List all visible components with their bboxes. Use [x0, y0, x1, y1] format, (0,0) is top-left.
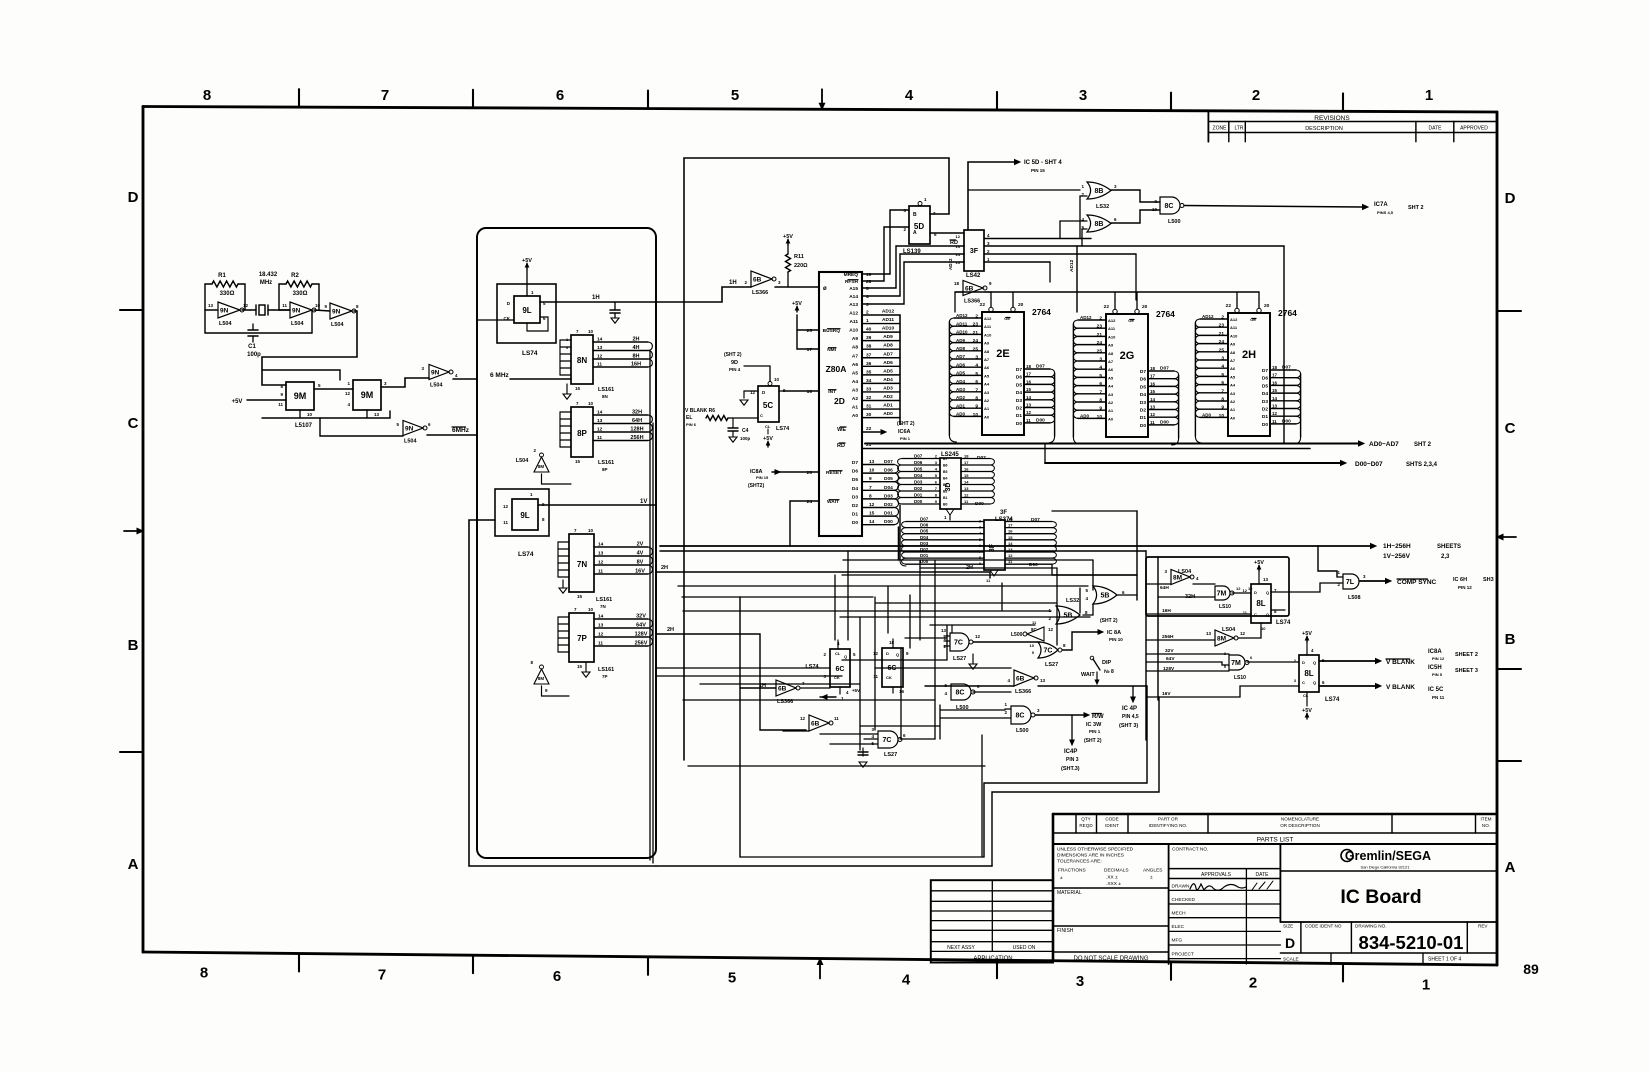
- svg-text:D6: D6: [1262, 376, 1268, 382]
- svg-text:IC 5C: IC 5C: [1428, 687, 1444, 693]
- svg-text:LS27: LS27: [953, 656, 966, 662]
- svg-text:PINS 4,5: PINS 4,5: [1377, 210, 1394, 215]
- svg-text:D5: D5: [1140, 384, 1146, 390]
- svg-text:A11: A11: [849, 319, 858, 325]
- svg-text:2764: 2764: [1278, 308, 1297, 318]
- svg-text:7N: 7N: [577, 560, 587, 569]
- svg-text:6MHz: 6MHz: [452, 427, 470, 434]
- svg-text:DRAWN: DRAWN: [1172, 884, 1190, 890]
- svg-text:16: 16: [1150, 381, 1156, 386]
- svg-text:A8: A8: [984, 349, 990, 354]
- svg-text:10: 10: [1261, 626, 1266, 631]
- svg-text:15: 15: [1026, 387, 1032, 392]
- svg-text:A6: A6: [1230, 366, 1236, 371]
- svg-text:L500: L500: [1011, 632, 1023, 638]
- svg-text:LS161: LS161: [596, 597, 612, 603]
- svg-text:256H: 256H: [1162, 634, 1174, 640]
- svg-text:NOMENCLATURE: NOMENCLATURE: [1281, 817, 1319, 822]
- svg-text:15: 15: [1008, 535, 1013, 540]
- svg-text:A5: A5: [984, 373, 990, 378]
- svg-text:14: 14: [598, 614, 604, 620]
- svg-text:13: 13: [598, 623, 604, 629]
- svg-text:AD12: AD12: [1080, 315, 1092, 320]
- svg-text:128H: 128H: [630, 427, 643, 433]
- svg-text:L500: L500: [1168, 219, 1181, 225]
- svg-text:D2: D2: [1016, 406, 1022, 412]
- svg-text:A1: A1: [1108, 408, 1114, 413]
- svg-text:D: D: [1302, 660, 1305, 665]
- svg-text:24: 24: [1219, 339, 1225, 345]
- svg-text:15: 15: [575, 386, 581, 391]
- svg-text:2764: 2764: [1156, 309, 1175, 319]
- svg-text:D02: D02: [914, 486, 923, 491]
- svg-text:B: B: [1505, 631, 1516, 648]
- svg-text:C: C: [760, 413, 763, 418]
- svg-text:IC 4P: IC 4P: [1122, 706, 1137, 712]
- svg-text:14: 14: [1272, 396, 1278, 401]
- svg-text:C: C: [1505, 420, 1516, 437]
- svg-text:D07: D07: [1031, 517, 1040, 523]
- svg-text:B6: B6: [943, 464, 948, 468]
- svg-text:LS27: LS27: [1045, 662, 1058, 668]
- svg-text:LS27: LS27: [884, 752, 897, 758]
- svg-text:B4: B4: [943, 477, 948, 481]
- svg-text:PIN 4: PIN 4: [729, 367, 741, 372]
- svg-text:1V~256V: 1V~256V: [1383, 553, 1411, 560]
- svg-text:15: 15: [1272, 388, 1278, 393]
- svg-text:8M: 8M: [1217, 635, 1226, 642]
- svg-text:6: 6: [975, 379, 978, 385]
- svg-text:9L: 9L: [520, 511, 529, 520]
- svg-text:5C: 5C: [763, 401, 773, 410]
- svg-text:A9: A9: [1230, 342, 1236, 347]
- svg-text:13: 13: [597, 345, 603, 351]
- svg-text:D03: D03: [914, 480, 923, 485]
- svg-text:D0: D0: [1262, 422, 1268, 428]
- svg-text:13: 13: [1026, 403, 1032, 408]
- svg-text:17: 17: [807, 347, 813, 353]
- svg-text:A1: A1: [852, 405, 858, 411]
- svg-text:Q: Q: [896, 652, 899, 657]
- svg-text:3: 3: [1076, 973, 1084, 990]
- svg-text:A3: A3: [852, 387, 858, 393]
- svg-text:13: 13: [597, 418, 603, 424]
- svg-text:AD4: AD4: [956, 379, 965, 384]
- svg-text:SHEETS: SHEETS: [1437, 544, 1461, 550]
- svg-text:13: 13: [1263, 577, 1269, 582]
- svg-text:13: 13: [1150, 405, 1156, 410]
- svg-text:18: 18: [1272, 365, 1278, 370]
- svg-text:2V: 2V: [637, 542, 644, 548]
- svg-text:CODE: CODE: [1105, 817, 1118, 822]
- svg-text:D00: D00: [914, 499, 923, 504]
- svg-text:AD11: AD11: [882, 317, 894, 323]
- svg-text:D00: D00: [1036, 417, 1045, 423]
- svg-text:834-5210-01: 834-5210-01: [1359, 932, 1464, 953]
- svg-text:AD0~AD7: AD0~AD7: [1369, 441, 1399, 448]
- svg-text:LS366: LS366: [964, 299, 980, 305]
- svg-text:D00: D00: [1029, 562, 1038, 568]
- svg-text:D07: D07: [977, 455, 986, 461]
- svg-text:LS04: LS04: [1178, 569, 1192, 575]
- svg-text:22: 22: [1104, 304, 1110, 310]
- svg-text:A5: A5: [1108, 375, 1114, 380]
- svg-text:1: 1: [1422, 976, 1430, 993]
- svg-text:16: 16: [1272, 380, 1278, 385]
- svg-text:6: 6: [553, 968, 561, 985]
- svg-text:3: 3: [979, 526, 981, 530]
- svg-text:21: 21: [1097, 332, 1103, 338]
- svg-text:9N: 9N: [431, 369, 440, 376]
- svg-text:5: 5: [866, 286, 869, 292]
- svg-text:PIN 12: PIN 12: [1458, 585, 1472, 590]
- svg-text:17: 17: [1026, 372, 1032, 377]
- svg-text:A8: A8: [1108, 351, 1114, 356]
- svg-text:WAIT: WAIT: [1081, 672, 1095, 678]
- svg-text:13: 13: [1040, 678, 1046, 683]
- svg-text:32V: 32V: [1165, 648, 1174, 654]
- svg-text:L500: L500: [1016, 728, 1029, 734]
- svg-text:12: 12: [873, 651, 879, 656]
- svg-text:5B: 5B: [1101, 593, 1110, 600]
- svg-text:LS161: LS161: [598, 667, 614, 673]
- svg-text:8: 8: [1099, 398, 1102, 404]
- svg-text:12: 12: [964, 493, 969, 498]
- svg-text:(SHT 2): (SHT 2): [1084, 738, 1102, 744]
- svg-text:RD: RD: [837, 443, 845, 449]
- svg-text:12: 12: [597, 427, 603, 433]
- svg-text:20: 20: [1018, 302, 1024, 308]
- svg-text:A0: A0: [852, 413, 858, 419]
- svg-text:9M: 9M: [294, 391, 307, 401]
- svg-text:PIN 15: PIN 15: [756, 475, 769, 480]
- svg-text:1H: 1H: [592, 295, 600, 301]
- svg-text:5: 5: [975, 371, 978, 377]
- svg-text:11: 11: [282, 303, 287, 308]
- svg-text:San Diego California 92121: San Diego California 92121: [1361, 865, 1411, 870]
- svg-text:IDENTIFYING NO.: IDENTIFYING NO.: [1149, 823, 1188, 828]
- svg-text:C: C: [1302, 680, 1305, 685]
- svg-text:Q: Q: [1313, 660, 1316, 665]
- svg-text:9: 9: [1099, 406, 1102, 412]
- svg-text:18: 18: [1026, 364, 1032, 369]
- svg-text:28: 28: [866, 279, 872, 285]
- svg-text:D4: D4: [1262, 391, 1268, 397]
- svg-text:2: 2: [1252, 87, 1260, 104]
- svg-text:PIN 5: PIN 5: [1432, 672, 1443, 677]
- svg-text:10: 10: [973, 412, 979, 418]
- svg-text:18: 18: [954, 281, 960, 286]
- svg-text:V BLANK: V BLANK: [1386, 659, 1415, 666]
- svg-text:220Ω: 220Ω: [794, 263, 808, 269]
- svg-text:11: 11: [1150, 420, 1155, 425]
- svg-text:AD2: AD2: [956, 395, 965, 400]
- svg-text:A6: A6: [852, 362, 858, 368]
- svg-text:.XXX ±: .XXX ±: [1106, 881, 1121, 887]
- svg-text:PIN 3: PIN 3: [1066, 757, 1079, 763]
- svg-text:OE: OE: [1250, 317, 1256, 322]
- svg-text:REQD: REQD: [1079, 823, 1093, 828]
- svg-text:23: 23: [1219, 323, 1225, 329]
- svg-text:PN 11: PN 11: [1432, 695, 1445, 700]
- svg-text:ELEC: ELEC: [1172, 924, 1185, 930]
- svg-text:2: 2: [975, 314, 978, 320]
- svg-text:4: 4: [975, 363, 978, 369]
- svg-text:SIZE: SIZE: [1283, 924, 1293, 929]
- svg-text:16H: 16H: [1162, 608, 1171, 614]
- svg-text:AD5: AD5: [883, 368, 893, 374]
- svg-text:LS42: LS42: [966, 273, 981, 279]
- svg-text:89: 89: [1523, 961, 1539, 977]
- svg-text:L508: L508: [1348, 595, 1361, 601]
- svg-text:LS10: LS10: [1234, 675, 1246, 681]
- svg-text:11: 11: [1026, 418, 1031, 423]
- svg-text:A4: A4: [984, 382, 990, 387]
- svg-text:21: 21: [1219, 331, 1225, 337]
- svg-text:25: 25: [973, 346, 979, 352]
- svg-text:13: 13: [941, 628, 947, 633]
- svg-text:C4: C4: [742, 428, 749, 434]
- svg-text:ø: ø: [823, 286, 827, 292]
- svg-text:SHEET 1 OF 4: SHEET 1 OF 4: [1428, 957, 1461, 963]
- svg-text:10: 10: [588, 607, 594, 612]
- svg-text:LS32: LS32: [1066, 598, 1079, 604]
- svg-text:(SHT 2): (SHT 2): [1100, 618, 1118, 624]
- svg-text:A11: A11: [1108, 326, 1116, 331]
- svg-text:NEXT ASSY: NEXT ASSY: [947, 945, 975, 951]
- svg-text:A2: A2: [1230, 399, 1236, 404]
- svg-text:9N: 9N: [220, 307, 229, 314]
- svg-text:A2: A2: [1108, 400, 1114, 405]
- svg-text:2: 2: [979, 520, 981, 524]
- svg-text:18: 18: [1008, 517, 1013, 522]
- svg-text:D0: D0: [1016, 421, 1022, 427]
- svg-text:Q: Q: [844, 654, 847, 659]
- svg-text:1V: 1V: [640, 499, 647, 505]
- svg-text:A11: A11: [984, 324, 992, 329]
- svg-text:A8: A8: [1230, 350, 1236, 355]
- svg-text:DIP: DIP: [1102, 660, 1112, 666]
- svg-text:R11: R11: [794, 254, 804, 260]
- svg-text:IC 5D - SHT 4: IC 5D - SHT 4: [1024, 160, 1062, 166]
- svg-text:6B: 6B: [778, 685, 787, 692]
- svg-text:PROJECT: PROJECT: [1172, 952, 1194, 958]
- svg-text:AD0: AD0: [1080, 414, 1089, 419]
- svg-text:CK: CK: [886, 675, 892, 680]
- svg-text:10: 10: [588, 528, 594, 533]
- svg-text:14: 14: [964, 480, 969, 485]
- svg-text:MATERIAL: MATERIAL: [1057, 890, 1082, 896]
- svg-text:PART OR: PART OR: [1158, 817, 1179, 822]
- svg-text:14: 14: [598, 542, 604, 548]
- svg-text:8M: 8M: [538, 676, 545, 681]
- svg-text:64V: 64V: [636, 623, 646, 629]
- svg-text:ZONE: ZONE: [1213, 126, 1228, 132]
- svg-text:D3: D3: [852, 494, 858, 500]
- svg-text:AD2: AD2: [883, 394, 893, 400]
- svg-text:13: 13: [964, 486, 969, 491]
- svg-text:5B: 5B: [1064, 613, 1073, 620]
- svg-text:D07: D07: [1036, 364, 1045, 370]
- svg-text:AD4: AD4: [883, 377, 893, 383]
- svg-text:D: D: [1505, 190, 1516, 207]
- svg-text:DATE: DATE: [1429, 126, 1443, 132]
- svg-text:16: 16: [1026, 379, 1032, 384]
- svg-text:D7: D7: [852, 460, 858, 466]
- svg-text:PIN 15: PIN 15: [1031, 168, 1045, 173]
- svg-text:LS74: LS74: [1325, 697, 1340, 703]
- svg-text:SHEET 2: SHEET 2: [1455, 652, 1478, 658]
- svg-text:11: 11: [598, 641, 603, 647]
- svg-text:10: 10: [774, 377, 780, 382]
- svg-text:7: 7: [378, 966, 386, 983]
- svg-text:9M: 9M: [361, 390, 374, 400]
- svg-text:D07: D07: [914, 454, 923, 459]
- svg-text:IC Board: IC Board: [1340, 886, 1421, 908]
- svg-text:L5107: L5107: [295, 423, 313, 429]
- svg-text:UNLESS OTHERWISE SPECIFIED: UNLESS OTHERWISE SPECIFIED: [1057, 847, 1134, 853]
- svg-text:AD9: AD9: [883, 334, 893, 340]
- svg-text:D1: D1: [852, 512, 858, 518]
- svg-text:12: 12: [1240, 631, 1246, 636]
- svg-text:100p: 100p: [247, 352, 261, 358]
- svg-text:20: 20: [1264, 303, 1270, 309]
- svg-text:D: D: [1285, 935, 1295, 951]
- svg-text:12: 12: [1272, 411, 1278, 416]
- svg-text:AD11: AD11: [956, 321, 968, 326]
- svg-text:LS74: LS74: [522, 350, 538, 357]
- svg-text:LS366: LS366: [1015, 689, 1031, 695]
- svg-text:D2: D2: [1262, 407, 1268, 413]
- svg-text:B: B: [128, 637, 139, 654]
- svg-text:330Ω: 330Ω: [220, 291, 235, 297]
- svg-text:5: 5: [728, 970, 736, 987]
- svg-text:ITEM: ITEM: [1481, 817, 1492, 822]
- svg-text:22: 22: [980, 302, 986, 308]
- svg-text:7: 7: [1099, 389, 1102, 395]
- svg-text:A9: A9: [984, 341, 990, 346]
- svg-text:FRACTIONS: FRACTIONS: [1058, 868, 1086, 874]
- svg-text:AD12: AD12: [1202, 314, 1214, 319]
- svg-text:AD5: AD5: [956, 371, 965, 376]
- svg-text:(SHT 2): (SHT 2): [724, 352, 742, 358]
- svg-text:+5V: +5V: [852, 688, 860, 693]
- svg-text:APPLICATION: APPLICATION: [973, 956, 1012, 962]
- svg-text:8N: 8N: [577, 356, 587, 365]
- svg-text:256V: 256V: [635, 641, 648, 647]
- svg-text:D5: D5: [852, 477, 858, 483]
- svg-text:SH3: SH3: [1483, 577, 1494, 583]
- svg-text:11: 11: [503, 520, 508, 525]
- svg-text:D07: D07: [1160, 366, 1169, 372]
- svg-text:A11: A11: [1230, 325, 1238, 330]
- svg-text:8: 8: [203, 87, 211, 104]
- svg-text:8B: 8B: [1095, 188, 1104, 195]
- svg-text:DRAWING NO.: DRAWING NO.: [1355, 924, 1386, 929]
- svg-text:8L: 8L: [1256, 599, 1265, 608]
- svg-text:16V: 16V: [635, 569, 645, 575]
- svg-text:CONTRACT NO.: CONTRACT NO.: [1172, 847, 1208, 853]
- svg-text:15: 15: [575, 459, 581, 464]
- svg-text:11: 11: [873, 674, 878, 679]
- svg-text:7C: 7C: [954, 640, 963, 647]
- svg-text:D4: D4: [852, 486, 858, 492]
- svg-text:14: 14: [1150, 397, 1156, 402]
- svg-text:128V: 128V: [635, 632, 648, 638]
- svg-text:13: 13: [208, 303, 214, 308]
- svg-text:LS74: LS74: [518, 551, 534, 558]
- svg-text:3F: 3F: [970, 248, 979, 255]
- svg-text:A4: A4: [852, 379, 858, 385]
- svg-text:A10: A10: [1230, 333, 1238, 338]
- svg-text:9N: 9N: [332, 308, 341, 315]
- svg-text:D1: D1: [1262, 414, 1268, 420]
- svg-text:10: 10: [307, 412, 313, 417]
- svg-text:A0: A0: [1108, 416, 1114, 421]
- svg-text:B: B: [913, 212, 917, 218]
- svg-text:14: 14: [956, 252, 961, 257]
- svg-text:AD12: AD12: [882, 309, 895, 315]
- svg-text:LS74: LS74: [1276, 620, 1291, 626]
- svg-text:9N: 9N: [292, 307, 301, 314]
- svg-text:D6: D6: [1140, 377, 1146, 383]
- svg-text:LS161: LS161: [598, 460, 614, 466]
- svg-text:12: 12: [1026, 410, 1032, 415]
- svg-text:8C: 8C: [1016, 713, 1025, 720]
- svg-text:A5: A5: [852, 370, 858, 376]
- svg-text:10: 10: [315, 303, 321, 308]
- svg-text:CL: CL: [765, 424, 771, 429]
- svg-text:11: 11: [278, 402, 283, 407]
- svg-text:2,3: 2,3: [1441, 554, 1450, 560]
- svg-text:Q: Q: [1313, 680, 1316, 685]
- svg-text:7N: 7N: [600, 604, 606, 609]
- svg-text:D04: D04: [920, 535, 929, 540]
- svg-text:Gremlin/SEGA: Gremlin/SEGA: [1345, 849, 1431, 863]
- svg-text:9N: 9N: [405, 425, 414, 432]
- svg-text:D00: D00: [1160, 419, 1169, 425]
- svg-text:L504: L504: [291, 321, 304, 327]
- svg-text:64H: 64H: [1160, 585, 1169, 591]
- svg-text:AD12: AD12: [1069, 259, 1075, 272]
- svg-text:№ 8: № 8: [1104, 669, 1114, 675]
- svg-text:8C: 8C: [1165, 203, 1174, 210]
- svg-text:D: D: [128, 189, 139, 206]
- svg-text:D04: D04: [914, 473, 923, 478]
- svg-text:12: 12: [243, 303, 249, 308]
- svg-text:D01: D01: [914, 493, 923, 498]
- svg-text:A9: A9: [852, 336, 858, 342]
- svg-text:IC6A: IC6A: [898, 429, 911, 435]
- svg-text:12: 12: [345, 391, 351, 396]
- svg-text:IC 8A: IC 8A: [1107, 630, 1121, 636]
- svg-text:100p: 100p: [740, 436, 751, 441]
- svg-text:12: 12: [956, 234, 961, 239]
- svg-text:8B: 8B: [1095, 221, 1104, 228]
- svg-text:IC 3W: IC 3W: [1086, 722, 1102, 728]
- svg-text:B1: B1: [943, 496, 948, 500]
- svg-text:6 MHz: 6 MHz: [490, 372, 510, 379]
- svg-text:A12: A12: [1108, 318, 1116, 323]
- svg-text:18: 18: [964, 454, 969, 459]
- svg-text:15: 15: [577, 664, 583, 669]
- svg-text:LS74: LS74: [805, 664, 819, 670]
- svg-text:10: 10: [1030, 643, 1035, 648]
- svg-text:AD8: AD8: [883, 343, 893, 349]
- svg-text:A6: A6: [984, 365, 990, 370]
- svg-text:SHTS 2,3,4: SHTS 2,3,4: [1406, 462, 1438, 468]
- svg-text:2: 2: [1249, 975, 1257, 992]
